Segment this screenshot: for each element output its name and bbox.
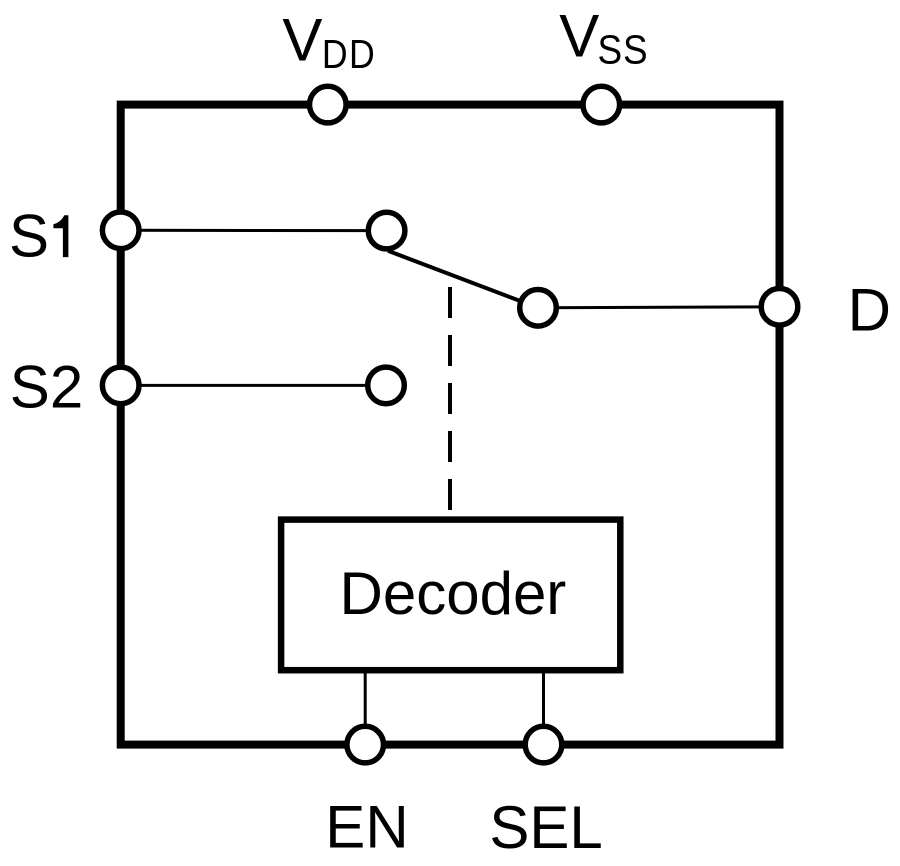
svg-text:Decoder: Decoder [340, 560, 567, 627]
svg-text:S: S [9, 203, 49, 270]
pin SEL [525, 726, 562, 763]
svg-text:V: V [282, 6, 322, 73]
dashed control line from switch to decoder [448, 287, 452, 517]
svg-text:D: D [848, 277, 891, 344]
pin D [761, 289, 798, 326]
wire S2 to throw contact [121, 384, 386, 387]
wire decoder to EN pin [364, 670, 367, 744]
label S1 [9, 203, 68, 270]
svg-text:V: V [559, 3, 599, 70]
pin VSS [583, 86, 620, 123]
wire common pole to D pin [538, 307, 780, 308]
svg-text:SS: SS [598, 28, 649, 73]
pin EN [347, 726, 384, 763]
svg-text:EN: EN [325, 794, 408, 861]
switch bar (S1 throw to common pole) [388, 251, 538, 308]
pin VDD [310, 86, 347, 123]
svg-text:DD: DD [322, 32, 376, 78]
contact S1 throw [368, 212, 405, 249]
wire decoder to SEL pin [542, 670, 545, 744]
contact S2 throw [368, 367, 405, 404]
decoder box U1 [281, 520, 620, 671]
label VDD [282, 6, 376, 77]
pin S2 [102, 367, 139, 404]
contact common pole [520, 290, 557, 327]
IC boundary box [121, 105, 780, 745]
svg-text:SEL: SEL [489, 794, 602, 861]
pin S1 [102, 212, 139, 249]
svg-text:S2: S2 [10, 354, 83, 421]
wire S1 to throw contact [121, 229, 387, 232]
label VSS [559, 3, 648, 73]
